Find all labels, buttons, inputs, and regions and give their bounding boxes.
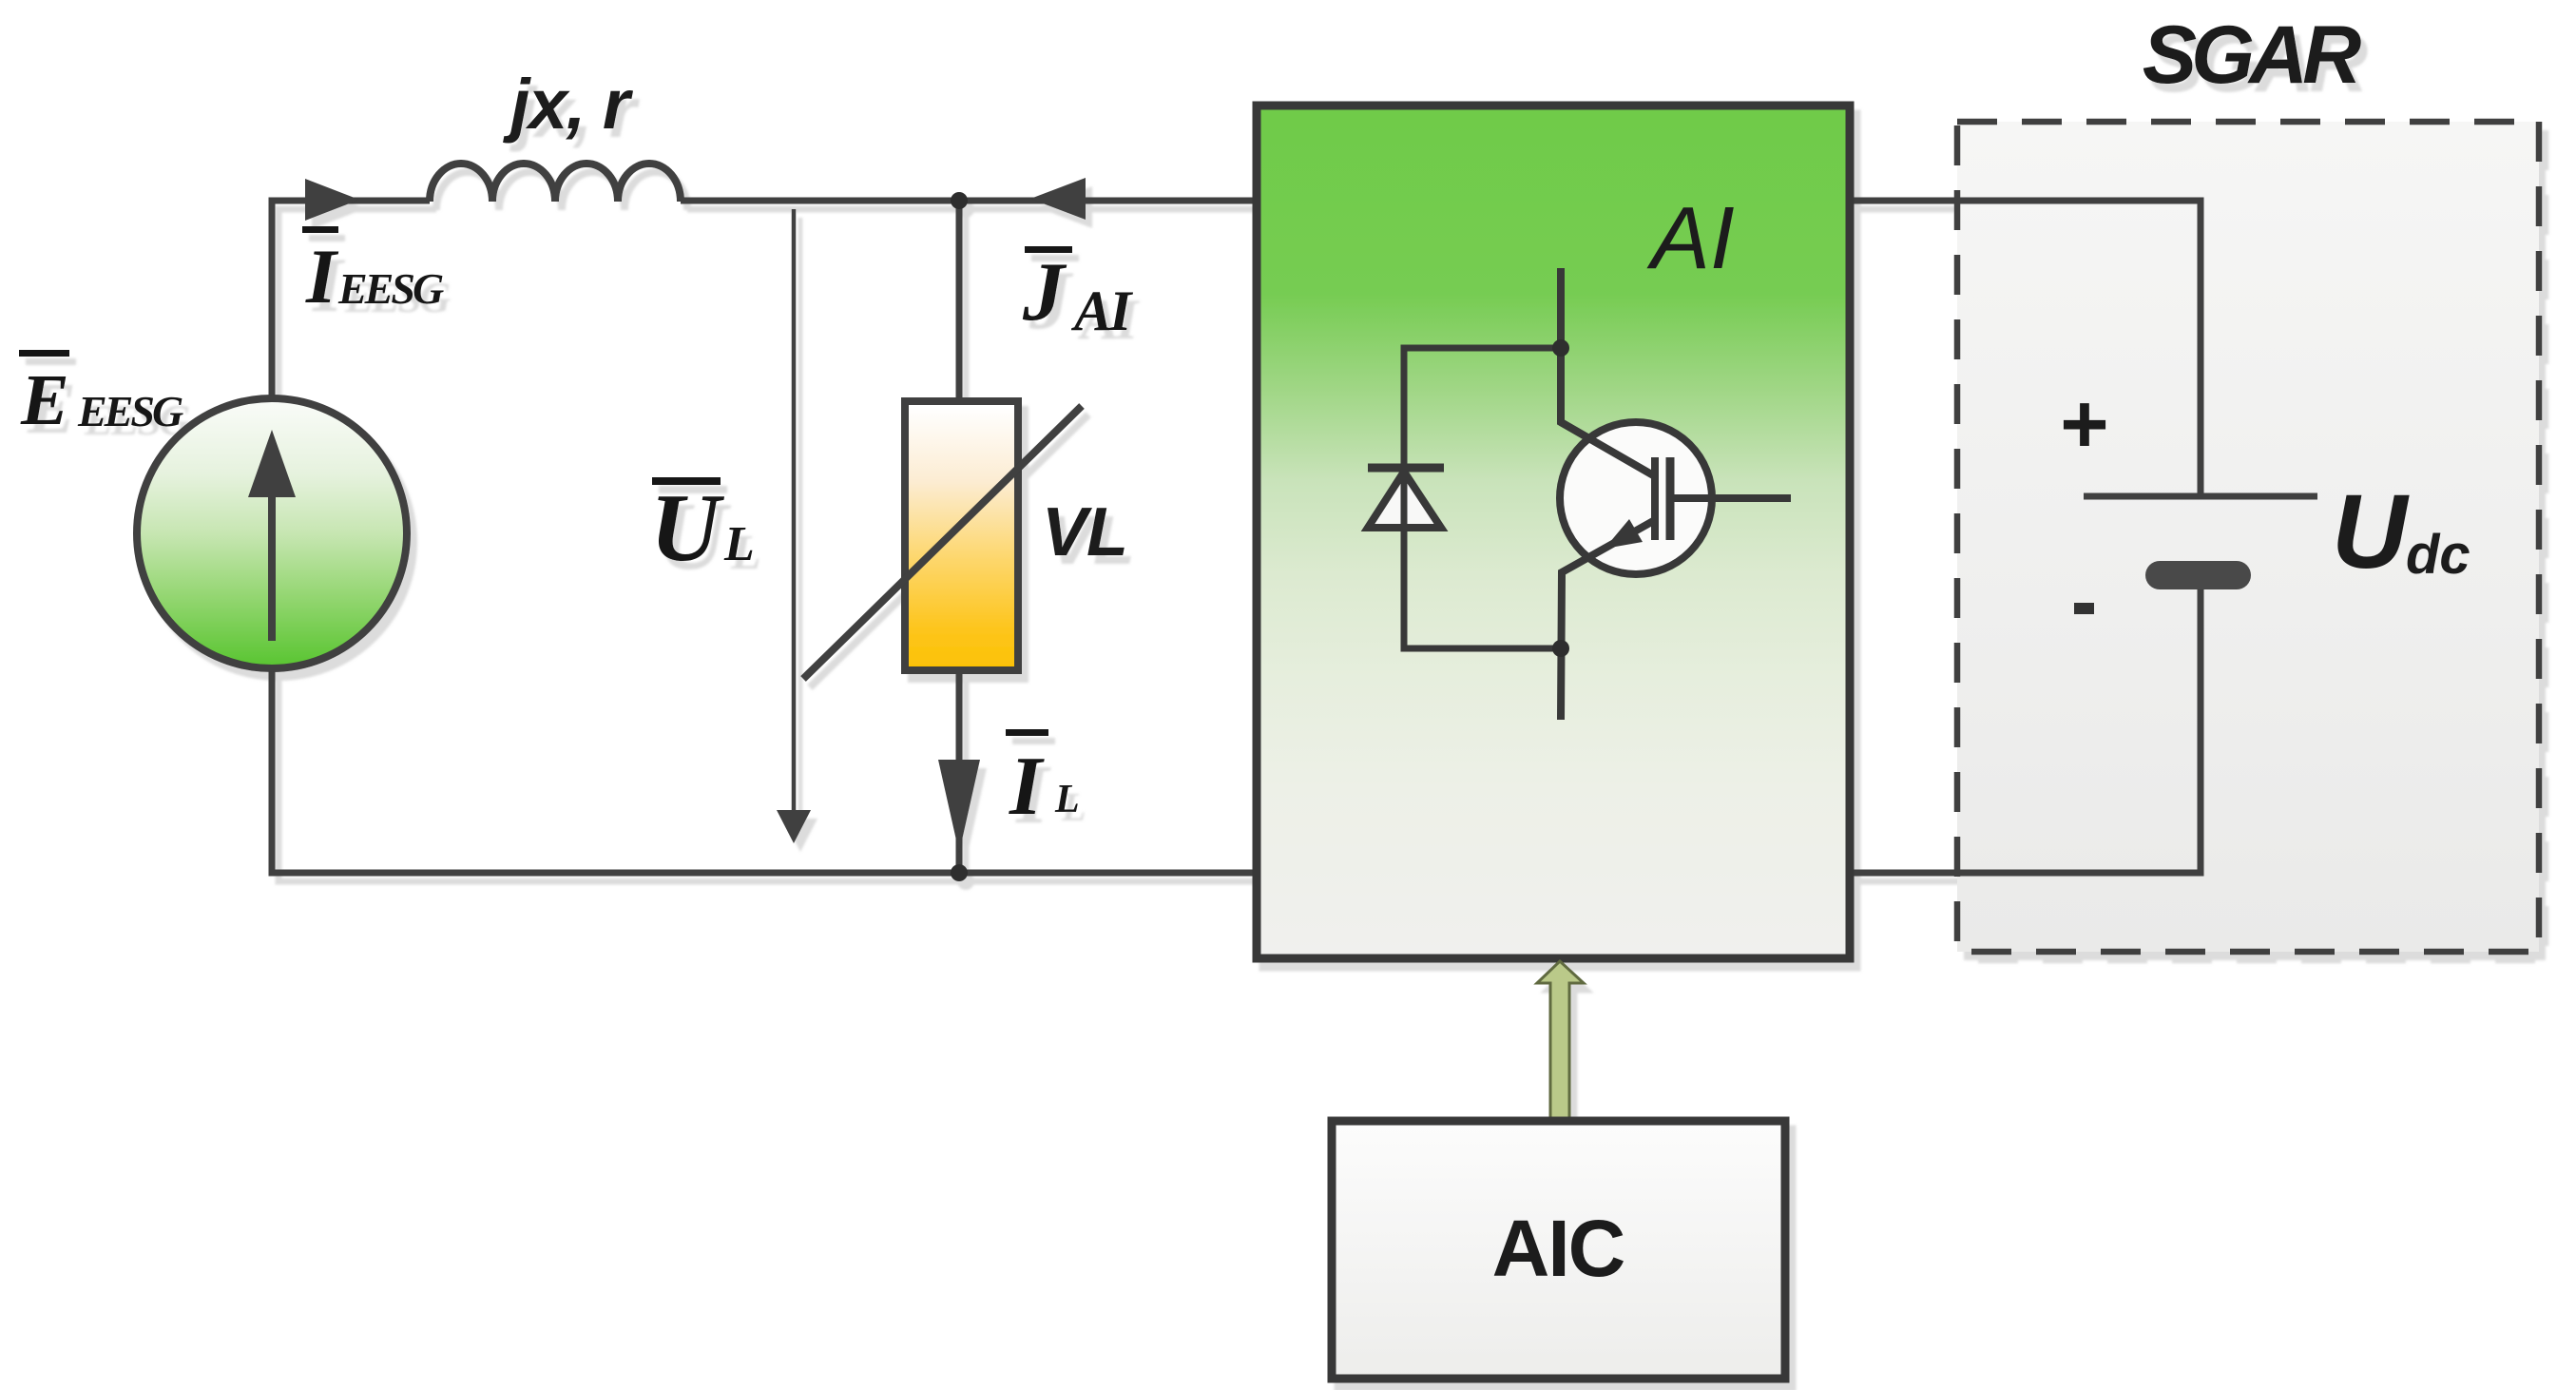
IGBT gate bars <box>1651 457 1659 540</box>
svg-text:AI: AI <box>1070 280 1134 342</box>
wire varistor top branch <box>956 201 963 403</box>
svg-text:SGAR: SGAR <box>2143 10 2361 101</box>
AI converter box <box>1257 106 1850 958</box>
svg-text:+: + <box>2060 376 2108 471</box>
arrow I_EESG <box>305 179 359 221</box>
wire bottom-right <box>1846 581 2201 873</box>
gate lead <box>1670 494 1791 502</box>
svg-text:U: U <box>2332 473 2410 590</box>
control arrow from AIC <box>1537 961 1584 1121</box>
wire bottom-left <box>272 668 1260 873</box>
svg-text:I: I <box>1009 741 1045 833</box>
emitter arrowhead <box>1605 519 1643 549</box>
diode cathode bar <box>1368 464 1444 473</box>
svg-text:EESG: EESG <box>77 387 183 435</box>
diode branch top <box>1404 348 1561 467</box>
IGBT collector diag inside <box>1561 422 1655 476</box>
wire top-left with corner <box>272 201 430 397</box>
svg-text:dc: dc <box>2406 524 2470 586</box>
SGAR dashed box <box>1957 122 2539 952</box>
node top <box>951 192 968 209</box>
node collector <box>1552 339 1569 357</box>
U_L measuring arrow <box>792 209 797 810</box>
AIC box <box>1332 1121 1785 1379</box>
node bottom <box>951 864 968 881</box>
svg-text:AI: AI <box>1646 188 1735 287</box>
node emitter <box>1552 640 1569 657</box>
label E_EESG <box>19 350 69 357</box>
svg-text:L: L <box>1054 778 1080 821</box>
label I_L <box>1006 729 1048 736</box>
current source E_EESG <box>137 398 407 668</box>
IGBT collector wire <box>1561 268 1655 476</box>
diode branch bottom <box>1404 473 1561 648</box>
svg-text:L: L <box>723 517 755 571</box>
arrow I_L <box>938 760 980 853</box>
svg-text:E: E <box>20 360 69 440</box>
svg-text:EESG: EESG <box>337 264 444 313</box>
label J_AI <box>1025 246 1072 253</box>
label minus <box>2074 603 2094 614</box>
wire top-middle <box>681 198 1260 204</box>
label I_EESG <box>302 226 338 233</box>
arrow J_AI <box>1030 178 1086 220</box>
svg-text:I: I <box>305 233 339 319</box>
label U_L <box>652 477 721 485</box>
emitter wire <box>1561 520 1655 720</box>
IGBT circle <box>1560 422 1712 574</box>
inductor jx,r <box>430 164 681 202</box>
svg-text:J: J <box>1022 246 1067 338</box>
varistor VL <box>905 401 1018 670</box>
svg-text:U: U <box>650 474 725 582</box>
diode D1 <box>1368 472 1441 528</box>
svg-text:AIC: AIC <box>1492 1204 1624 1293</box>
wire top-right into SGAR <box>1846 201 2201 493</box>
svg-text:jx, r: jx, r <box>503 65 634 144</box>
battery U_dc <box>2084 493 2317 500</box>
wire varistor bottom branch <box>956 667 963 873</box>
svg-text:VL: VL <box>1042 494 1127 570</box>
